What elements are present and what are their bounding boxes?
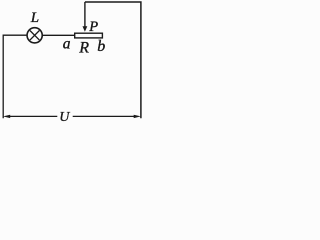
wire top branch: slider up, across top, down right side [85, 2, 141, 118]
slider P arrow onto resistor [83, 2, 88, 32]
svg-text:U: U [59, 110, 70, 125]
resistor R (rheostat body) [75, 33, 103, 38]
svg-text:L: L [30, 10, 39, 26]
lamp L [27, 28, 42, 43]
svg-text:a: a [63, 36, 71, 53]
wire left branch: bottom-left corner up to lamp [3, 35, 27, 118]
voltage arrow U (double-headed) [3, 115, 141, 118]
svg-text:R: R [78, 40, 89, 57]
svg-text:P: P [88, 19, 98, 35]
svg-text:b: b [97, 38, 105, 55]
wire lamp to resistor end a [42, 34, 74, 36]
